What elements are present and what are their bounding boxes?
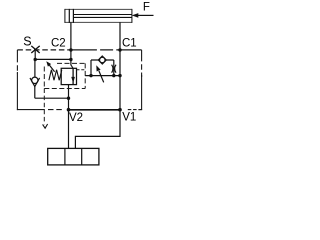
svg-text:V2: V2: [69, 112, 83, 124]
svg-text:F: F: [143, 2, 150, 14]
svg-text:S: S: [23, 34, 31, 48]
svg-text:C1: C1: [122, 38, 137, 50]
svg-text:V1: V1: [122, 112, 136, 124]
svg-text:C2: C2: [51, 37, 66, 49]
